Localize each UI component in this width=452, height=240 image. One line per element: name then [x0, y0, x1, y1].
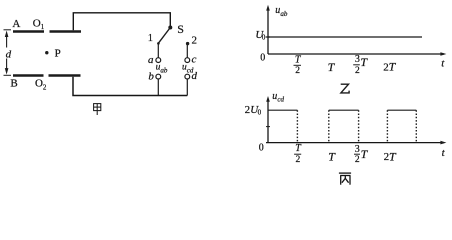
graph BING y-axis	[267, 100, 269, 143]
svg-text:2: 2	[355, 155, 360, 165]
dimension d top tick	[4, 29, 12, 31]
svg-text:d: d	[192, 70, 198, 82]
terminal b circle	[156, 74, 161, 79]
svg-text:T: T	[328, 60, 336, 74]
wire contact1 to terminal a	[157, 43, 159, 57]
dimension d down arrow	[6, 59, 8, 71]
svg-text:T: T	[389, 149, 397, 163]
svg-text:ab: ab	[280, 10, 288, 18]
u_cd pulse 1 top	[268, 109, 297, 111]
graph BING x-axis	[266, 142, 444, 144]
svg-text:1: 1	[41, 23, 45, 31]
svg-text:0: 0	[258, 109, 262, 117]
label yi (Chinese: second)	[341, 84, 349, 93]
svg-text:t: t	[442, 147, 446, 159]
svg-text:c: c	[192, 54, 197, 66]
svg-text:O: O	[33, 17, 41, 29]
svg-text:0: 0	[260, 52, 265, 63]
graph YI x-axis	[268, 53, 444, 55]
svg-text:T: T	[389, 60, 397, 74]
terminal c circle	[185, 58, 190, 63]
svg-text:O: O	[35, 78, 43, 90]
terminal d circle	[185, 74, 190, 79]
svg-text:t: t	[441, 58, 445, 70]
svg-text:S: S	[177, 22, 184, 36]
svg-text:3: 3	[355, 144, 360, 155]
capacitor plate A top left segment	[13, 30, 44, 33]
capacitor plate B bottom left segment	[13, 74, 44, 77]
svg-text:2: 2	[192, 34, 198, 46]
u_cd pulse 2 right dotted edge	[358, 110, 360, 142]
graph YI U0 tick and label	[266, 36, 270, 38]
capacitor plate A top right segment	[50, 30, 82, 33]
label bing (Chinese: third)	[339, 173, 351, 185]
svg-text:T: T	[295, 54, 302, 65]
contact 1 dot	[157, 42, 160, 45]
svg-text:b: b	[148, 71, 154, 83]
graph YI y-axis	[267, 8, 269, 54]
label jia (Chinese: first)	[94, 104, 101, 115]
u_cd pulse 3 top	[387, 109, 416, 111]
u_cd pulse 3 left dotted edge	[386, 110, 388, 142]
point P	[45, 51, 48, 54]
svg-text:P: P	[55, 48, 61, 60]
u_cd pulse 3 right dotted edge	[415, 110, 417, 142]
svg-text:1: 1	[148, 33, 153, 44]
wire terminal d down	[186, 79, 188, 96]
u_cd pulse 1 right dotted edge	[296, 110, 298, 142]
svg-text:T: T	[328, 149, 336, 163]
svg-text:T: T	[295, 143, 302, 154]
svg-text:2: 2	[296, 155, 301, 165]
svg-text:2: 2	[43, 83, 47, 91]
dimension d bottom tick	[4, 74, 12, 76]
terminal a circle	[156, 58, 161, 63]
svg-text:0: 0	[259, 142, 264, 153]
svg-text:a: a	[148, 54, 154, 66]
svg-text:A: A	[12, 18, 20, 30]
svg-text:2: 2	[355, 66, 360, 76]
bottom wire to plate B	[73, 77, 187, 96]
svg-text:3: 3	[355, 54, 360, 65]
switch S pivot dot	[168, 26, 172, 30]
wire from plate A up and across to switch	[73, 13, 170, 30]
contact 2 dot	[186, 42, 189, 45]
capacitor plate B bottom right segment	[49, 74, 81, 77]
u_cd pulse 2 top	[329, 109, 359, 111]
svg-text:T: T	[361, 147, 369, 161]
svg-text:B: B	[10, 77, 17, 89]
dimension d up arrow	[5, 31, 9, 38]
svg-text:cd: cd	[277, 95, 284, 103]
wire terminal b down	[157, 79, 159, 96]
switch blade	[159, 28, 171, 43]
wire contact2 to terminal c	[186, 44, 188, 58]
svg-text:T: T	[360, 55, 368, 69]
graph YI curve: constant U0 line	[268, 36, 422, 38]
svg-text:2: 2	[295, 66, 300, 76]
svg-text:ab: ab	[160, 66, 168, 74]
svg-text:0: 0	[262, 34, 266, 42]
graph BING U0 tick on y-axis	[266, 126, 270, 128]
u_cd pulse 2 left dotted edge	[328, 110, 330, 142]
